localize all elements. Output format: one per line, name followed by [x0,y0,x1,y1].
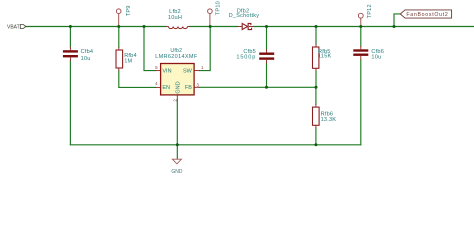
svg-text:EN: EN [162,85,170,91]
svg-text:10uH: 10uH [168,15,182,21]
svg-text:Cfb4: Cfb4 [81,49,94,55]
svg-text:10u: 10u [81,56,91,62]
svg-text:D_Schottky: D_Schottky [229,13,260,19]
svg-text:10u: 10u [371,54,381,60]
svg-text:13.3K: 13.3K [321,117,337,123]
svg-text:1: 1 [201,65,204,70]
svg-text:4: 4 [155,81,158,86]
svg-text:GND: GND [175,81,181,93]
svg-text:115K: 115K [318,54,332,60]
svg-text:FanBoostOut2: FanBoostOut2 [406,12,448,18]
svg-text:TP9: TP9 [126,5,132,16]
svg-text:2: 2 [172,99,177,102]
svg-text:VIN: VIN [162,68,171,74]
svg-text:5: 5 [155,65,158,70]
svg-text:FB: FB [185,85,192,91]
svg-text:TP12: TP12 [367,4,373,18]
svg-text:GND: GND [171,169,183,175]
svg-text:Lfb2: Lfb2 [169,9,181,15]
svg-text:SW: SW [183,68,193,74]
svg-text:TP10: TP10 [216,1,222,15]
svg-text:3: 3 [196,82,199,87]
svg-text:1500p: 1500p [236,55,256,61]
svg-text:LMR62014XMF: LMR62014XMF [155,54,198,60]
svg-text:VBAT: VBAT [7,24,20,30]
svg-text:1M: 1M [124,58,132,64]
